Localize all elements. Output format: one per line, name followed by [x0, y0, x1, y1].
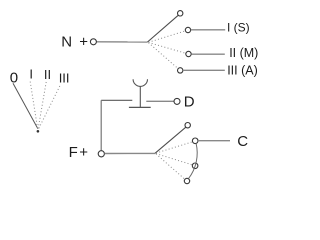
svg-text:I: I — [29, 67, 33, 82]
svg-text:III: III — [59, 71, 70, 86]
svg-text:II: II — [44, 67, 51, 82]
svg-text:III (A): III (A) — [227, 64, 258, 78]
svg-text:+: + — [79, 33, 88, 50]
svg-text:D: D — [184, 93, 195, 110]
svg-text:C: C — [237, 133, 248, 150]
svg-text:+: + — [79, 144, 88, 161]
svg-text:0: 0 — [10, 69, 18, 86]
svg-text:N: N — [61, 33, 72, 50]
svg-text:F: F — [69, 144, 78, 161]
svg-text:II (M): II (M) — [229, 46, 258, 60]
svg-text:I (S): I (S) — [227, 21, 250, 35]
